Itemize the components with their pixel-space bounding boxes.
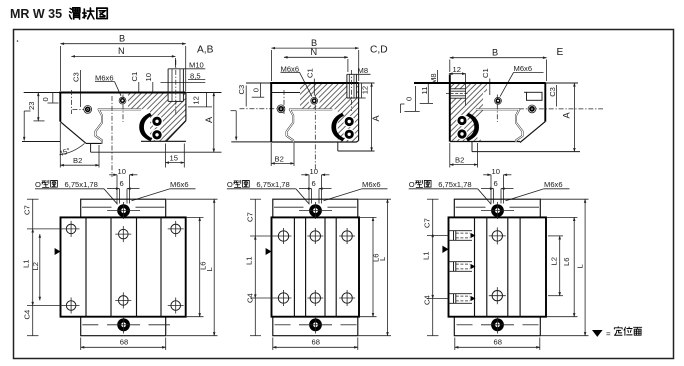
inner rail line 3 bbox=[324, 217, 326, 316]
svg-text:12: 12 bbox=[453, 65, 461, 74]
block top surface bbox=[414, 82, 546, 84]
hole top-left bbox=[66, 224, 76, 234]
svg-text:N: N bbox=[311, 47, 318, 57]
left dim column C7 L1 C4 bbox=[254, 199, 256, 236]
O-ring leader bbox=[104, 189, 118, 205]
rail end bracket left bbox=[235, 111, 237, 141]
rail ridge dark crescent bbox=[139, 113, 152, 141]
rail profile double line mirrored bbox=[476, 109, 523, 142]
hole bottom-center bbox=[492, 291, 502, 301]
rail datum bottom line bbox=[338, 150, 375, 152]
block top surface bbox=[59, 92, 186, 94]
hatch body region bbox=[128, 93, 186, 142]
centerline lube left bbox=[70, 90, 72, 114]
centerline rail bbox=[314, 95, 316, 170]
bottom right line bbox=[141, 140, 186, 142]
hole bottom-right bbox=[171, 301, 181, 311]
ball bearing upper bbox=[457, 116, 466, 125]
inner rail line 4 bbox=[335, 217, 337, 316]
inner rail line 1 bbox=[474, 217, 476, 316]
right dims L6 and L bbox=[186, 216, 204, 218]
svg-text:10: 10 bbox=[118, 167, 126, 176]
rail bottom left line bbox=[231, 141, 271, 143]
svg-text:10: 10 bbox=[492, 167, 500, 176]
svg-text:0: 0 bbox=[252, 88, 261, 92]
bottom right corner diag bbox=[357, 141, 359, 143]
centerline N left bbox=[283, 90, 285, 114]
svg-text:6: 6 bbox=[312, 179, 316, 188]
dimension A bbox=[187, 92, 222, 94]
inner rail line 2 bbox=[110, 217, 112, 316]
inner rail line 3 bbox=[507, 217, 509, 316]
grease nipple circle bbox=[84, 106, 92, 114]
svg-text:68: 68 bbox=[494, 337, 502, 346]
hole top-right bbox=[342, 231, 352, 241]
dimension 68 bbox=[454, 338, 456, 351]
hole top-left bbox=[278, 231, 288, 241]
O-ring leader bbox=[478, 189, 492, 205]
datum-face legend triangle bbox=[592, 330, 603, 337]
hatch right column bbox=[338, 109, 359, 142]
inner rail line 2 bbox=[486, 217, 488, 316]
corner mark bbox=[17, 40, 19, 42]
bottom grease nipple bbox=[309, 318, 322, 331]
right dims L2 L6 L bbox=[548, 235, 563, 237]
top end plate bbox=[273, 199, 358, 217]
rail top internal line bbox=[271, 92, 300, 94]
svg-text:L: L bbox=[378, 257, 387, 261]
legend bbox=[592, 327, 642, 339]
M6x6 leader bbox=[132, 189, 171, 201]
grease nipple circle bbox=[528, 105, 536, 113]
top surface extension left bbox=[24, 92, 60, 94]
svg-text:B: B bbox=[492, 47, 498, 57]
svg-text:M10: M10 bbox=[189, 60, 204, 69]
svg-text:N: N bbox=[118, 46, 125, 56]
flange step bbox=[337, 142, 339, 151]
dimension N bbox=[71, 55, 175, 57]
M6 halo white bbox=[309, 95, 320, 106]
side slot 2 bbox=[449, 261, 473, 263]
svg-text:M6x6: M6x6 bbox=[514, 64, 533, 73]
hole bottom-left bbox=[66, 301, 76, 311]
block right face bbox=[358, 83, 360, 141]
hole top-center bbox=[310, 231, 320, 241]
M8 hole white core bbox=[347, 83, 357, 98]
dimension N bbox=[284, 56, 348, 58]
centerline M10 bbox=[175, 60, 177, 116]
svg-text:A,B: A,B bbox=[197, 45, 214, 56]
svg-text:M6x6: M6x6 bbox=[362, 180, 381, 189]
block bottom edge bbox=[271, 141, 356, 143]
svg-text:C7: C7 bbox=[23, 205, 32, 215]
hole bottom-left bbox=[278, 293, 288, 303]
datum triangle marker bbox=[266, 248, 272, 255]
M10 tapped hole bbox=[167, 69, 169, 102]
svg-text:L2: L2 bbox=[550, 257, 559, 265]
top grease nipple bbox=[309, 204, 322, 217]
svg-text:A: A bbox=[562, 112, 572, 119]
carriage body bbox=[449, 217, 547, 316]
svg-text:C3: C3 bbox=[237, 85, 246, 95]
hole top-center bbox=[492, 231, 502, 241]
dimension B bbox=[61, 43, 186, 45]
centerline grease horizontal bbox=[519, 108, 603, 110]
svg-text:C7: C7 bbox=[245, 212, 254, 222]
block right face bbox=[544, 83, 546, 122]
svg-text:11: 11 bbox=[420, 87, 429, 95]
hole top-right bbox=[171, 224, 181, 234]
svg-text:12: 12 bbox=[191, 96, 200, 104]
ball bearing lower bbox=[457, 129, 466, 138]
ball bearing lower bbox=[152, 130, 161, 139]
M6 port circle bbox=[311, 97, 318, 104]
block right face bbox=[185, 93, 187, 121]
svg-text:L1: L1 bbox=[244, 257, 253, 265]
svg-text:M8: M8 bbox=[358, 66, 369, 75]
svg-text:L6: L6 bbox=[562, 258, 571, 266]
ball bearing upper bbox=[345, 117, 354, 126]
carriage body bbox=[61, 217, 186, 316]
O-ring leader bbox=[296, 189, 310, 205]
centerline M6 bbox=[122, 95, 124, 123]
block bottom edge bbox=[450, 141, 520, 143]
centerline M6 bbox=[496, 95, 498, 123]
rail profile double line bbox=[95, 109, 141, 143]
carriage body bbox=[272, 217, 360, 316]
hatch top band bbox=[300, 83, 359, 109]
hole top-center bbox=[119, 229, 129, 239]
svg-text:O: O bbox=[409, 180, 415, 189]
svg-text:M6x6: M6x6 bbox=[544, 180, 563, 189]
right dims L6 and L bbox=[360, 216, 377, 218]
inner rail line 1 bbox=[293, 217, 295, 316]
centerline rail bbox=[111, 96, 113, 177]
svg-text:6,75x1,78: 6,75x1,78 bbox=[256, 180, 289, 189]
rail hook left bbox=[401, 103, 405, 105]
svg-text:23: 23 bbox=[27, 102, 36, 110]
inner rail line 2 bbox=[305, 217, 307, 316]
dimension B2 bbox=[59, 123, 61, 168]
dimension B bbox=[271, 47, 358, 49]
right 45 chamfer bbox=[520, 122, 545, 143]
svg-text:M6x6: M6x6 bbox=[95, 73, 114, 82]
top grease nipple bbox=[117, 204, 130, 217]
dimension 68 bbox=[272, 338, 274, 351]
rail datum bottom line bbox=[91, 151, 222, 153]
svg-text:M6x6: M6x6 bbox=[170, 180, 189, 189]
dimension A bbox=[359, 82, 375, 84]
left 45 chamfer bbox=[60, 122, 86, 144]
dimension 15 bbox=[164, 144, 166, 168]
svg-text:MR W 35: MR W 35 bbox=[10, 7, 62, 21]
rail profile double line bbox=[287, 109, 333, 142]
top surface extension left bbox=[246, 82, 271, 84]
ball white halos bbox=[151, 115, 163, 127]
svg-text:C,D: C,D bbox=[370, 45, 388, 56]
bottom grease nipple bbox=[491, 318, 504, 331]
datum triangle marker bbox=[55, 248, 61, 255]
hole bottom-right bbox=[342, 293, 352, 303]
rail ridge dark crescent bbox=[331, 113, 344, 141]
step to datum bbox=[471, 142, 473, 152]
rail datum bottom line bbox=[472, 151, 580, 153]
svg-text:6: 6 bbox=[120, 179, 124, 188]
top end plate bbox=[454, 199, 540, 217]
dimension B2 bbox=[449, 143, 451, 168]
datum triangle marker bbox=[442, 246, 448, 253]
hole bottom-center bbox=[310, 293, 320, 303]
svg-text:10: 10 bbox=[144, 73, 153, 81]
svg-text:10: 10 bbox=[310, 167, 318, 176]
svg-text:B2: B2 bbox=[455, 156, 464, 165]
dimension A bbox=[546, 82, 578, 84]
svg-text:0: 0 bbox=[41, 97, 50, 101]
svg-text:O: O bbox=[227, 180, 233, 189]
block left face bbox=[59, 92, 61, 122]
svg-text:8,5: 8,5 bbox=[190, 71, 201, 80]
svg-text:6,75x1,78: 6,75x1,78 bbox=[65, 180, 98, 189]
centerline M8 bbox=[351, 70, 353, 111]
svg-text:C3: C3 bbox=[548, 87, 557, 97]
svg-text:A: A bbox=[371, 115, 381, 122]
rail end bracket left bbox=[23, 111, 25, 141]
hatch left column bbox=[450, 92, 483, 141]
dimension B2 bbox=[270, 143, 272, 166]
M6x6 leader bbox=[506, 189, 545, 201]
svg-text:L2: L2 bbox=[31, 262, 40, 270]
block left face bbox=[270, 83, 272, 143]
svg-text:C1: C1 bbox=[130, 72, 139, 82]
block left face bbox=[449, 75, 451, 142]
svg-text:L1: L1 bbox=[422, 252, 431, 260]
svg-text:B2: B2 bbox=[73, 156, 82, 165]
svg-text:15: 15 bbox=[170, 154, 178, 163]
inner rail line 1 bbox=[85, 217, 87, 316]
left dim column C7 L1 C4 bbox=[32, 199, 34, 229]
svg-text:E: E bbox=[557, 47, 564, 58]
rail bottom left line bbox=[22, 141, 60, 143]
svg-text:6,75x1,78: 6,75x1,78 bbox=[438, 180, 471, 189]
svg-text:C4: C4 bbox=[245, 293, 254, 303]
inner rail line 4 bbox=[519, 217, 521, 316]
svg-text:C7: C7 bbox=[423, 218, 432, 228]
grease nipple circle bbox=[277, 105, 285, 113]
hatch band around balls bbox=[150, 109, 162, 141]
top end plate bbox=[81, 199, 166, 217]
svg-text:C4: C4 bbox=[423, 295, 432, 305]
ball bearing upper bbox=[152, 117, 161, 126]
svg-text:O: O bbox=[35, 180, 41, 189]
ball halos white bbox=[344, 116, 355, 127]
L2 dim bbox=[39, 234, 41, 300]
block top surface bbox=[270, 82, 359, 84]
bottom grease nipple bbox=[117, 318, 130, 331]
hole bottom-center bbox=[119, 296, 129, 306]
inner rail line 4 bbox=[160, 217, 162, 316]
svg-text:C4: C4 bbox=[23, 310, 32, 320]
top grease nipple bbox=[491, 204, 504, 217]
M6 port circle bbox=[119, 97, 126, 104]
M10 hole white core bbox=[168, 93, 183, 102]
hatch top band bbox=[450, 83, 487, 92]
left dim column C7 L1 C4 bbox=[432, 199, 434, 233]
svg-text:L: L bbox=[576, 264, 585, 268]
svg-text:6: 6 bbox=[494, 179, 498, 188]
svg-text:C1: C1 bbox=[306, 68, 315, 78]
rail ridge dark crescent mirrored bbox=[466, 113, 479, 141]
M6x6 leader bbox=[324, 189, 363, 201]
bottom end plate bbox=[81, 317, 166, 336]
svg-text:0: 0 bbox=[405, 97, 414, 101]
M8 tapped hole bbox=[346, 74, 348, 98]
M8 hole white core bbox=[450, 89, 466, 98]
svg-text:C1: C1 bbox=[481, 68, 490, 78]
45 deg arc and label bbox=[61, 144, 85, 155]
inner rail line 3 bbox=[136, 217, 138, 316]
svg-text:L: L bbox=[205, 267, 214, 271]
svg-text:=: = bbox=[606, 329, 611, 338]
rail top internal line bbox=[524, 91, 527, 93]
svg-text:68: 68 bbox=[312, 337, 320, 346]
step to datum bbox=[90, 143, 92, 152]
bottom end plate bbox=[454, 317, 540, 336]
bottom left leg line bbox=[86, 142, 102, 144]
svg-text:B: B bbox=[119, 34, 125, 44]
svg-text:A: A bbox=[204, 116, 214, 123]
right 45 chamfer bbox=[166, 121, 186, 142]
M6 port circle bbox=[495, 97, 502, 104]
dimension B bbox=[450, 57, 547, 59]
side slot 3 bbox=[449, 293, 473, 295]
small pocket box right bbox=[527, 92, 543, 100]
bottom end plate bbox=[273, 317, 358, 336]
svg-text:C3: C3 bbox=[72, 72, 81, 82]
ball bearing lower bbox=[345, 130, 354, 139]
side slot 1 bbox=[449, 230, 473, 232]
svg-text:L1: L1 bbox=[22, 260, 31, 268]
dimension 68 bbox=[80, 338, 82, 351]
ball halos white bbox=[456, 115, 467, 126]
svg-text:B2: B2 bbox=[275, 154, 284, 163]
svg-text:68: 68 bbox=[120, 337, 128, 346]
M8 tapped hole horizontal bbox=[450, 88, 466, 90]
